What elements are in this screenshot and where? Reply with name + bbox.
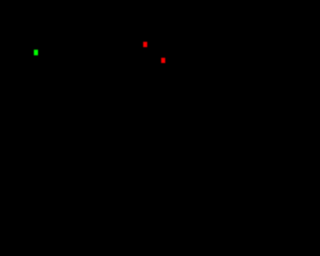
atom O2 (ester oxygen, red label blob)	[161, 58, 165, 63]
molecule canvas (black background, bonds invisible)	[0, 0, 256, 256]
atom O1 (carbonyl oxygen, red label blob)	[143, 42, 147, 47]
atom Cl (chlorine, green label blob)	[34, 50, 38, 56]
